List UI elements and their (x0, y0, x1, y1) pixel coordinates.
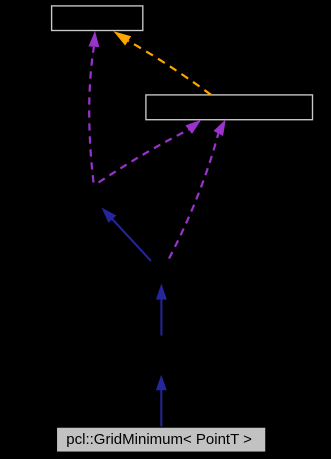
edge P2: purple dashed usage arrow into node B bottom-left (99, 130, 189, 183)
node A (empty gray box, top-left) (52, 6, 143, 31)
svg-text:pcl::GridMinimum< PointT >: pcl::GridMinimum< PointT > (66, 431, 252, 448)
edge B1: blue solid inheritance arrow (diagonal) (112, 219, 151, 261)
edge B3: blue solid inheritance arrow (lower vertical) (160, 390, 162, 428)
edge B2 arrowhead (156, 284, 167, 300)
edge P3 arrowhead (214, 119, 226, 136)
edge O1 arrowhead (114, 31, 132, 45)
edge B3 arrowhead (156, 375, 167, 391)
node B (empty gray box, right) (146, 95, 313, 120)
edge P1: purple dashed usage arrow into node A (89, 47, 94, 183)
edge O1: orange dashed template-instance arrow from node B to node A (128, 41, 211, 95)
edge P1 arrowhead (89, 31, 100, 47)
edge P3: purple dashed usage arrow into node B bottom-right (169, 133, 218, 258)
edge B1 arrowhead (102, 208, 117, 223)
edge B2: blue solid inheritance arrow (middle vertical) (160, 299, 162, 336)
node C: pcl::GridMinimum PointT (focal node, gray fill) (56, 427, 266, 452)
edge P2 arrowhead (185, 120, 201, 134)
